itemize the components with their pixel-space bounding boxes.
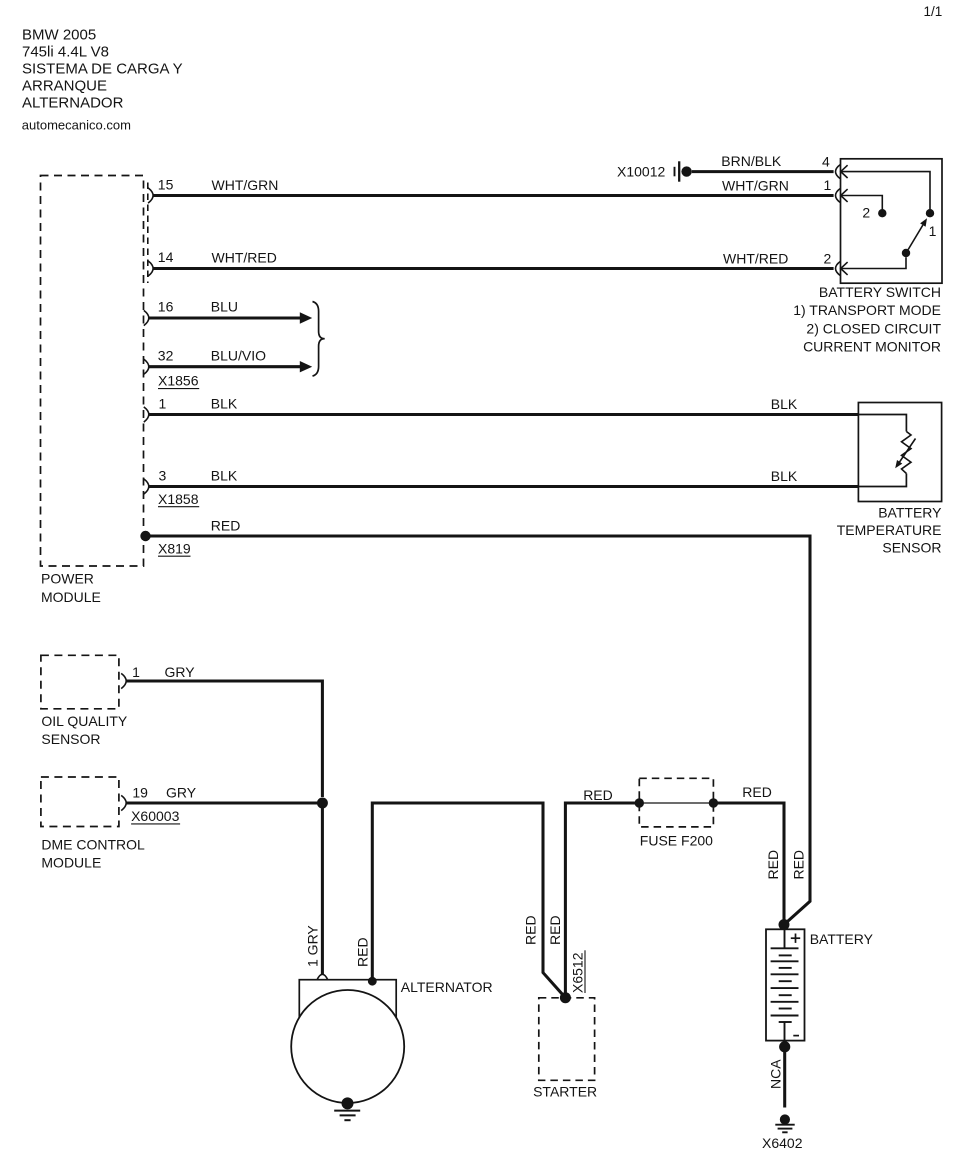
svg-text:FUSE F200: FUSE F200 [640, 833, 713, 849]
DME control module dashed box [41, 777, 119, 827]
DME control module pin 19 [121, 784, 148, 810]
svg-text:1: 1 [132, 664, 140, 680]
svg-text:1: 1 [824, 177, 832, 193]
fuse F200 element [635, 798, 719, 807]
svg-text:ALTERNADOR: ALTERNADOR [22, 95, 124, 112]
node X6512 junction dot [560, 950, 586, 1003]
node X819 junction dot [140, 531, 191, 557]
svg-text:GRY: GRY [165, 664, 196, 680]
svg-text:1 GRY: 1 GRY [305, 925, 321, 967]
wire GRY junction down to alternator [305, 803, 323, 974]
thermistor zigzag [902, 432, 912, 474]
starter M1 dashed box [539, 998, 595, 1081]
power module U1 dashed box [41, 176, 144, 567]
fuse F200 caption [640, 833, 713, 849]
svg-text:X6402: X6402 [762, 1135, 803, 1151]
oil quality sensor caption [41, 713, 128, 747]
svg-text:19: 19 [132, 784, 148, 800]
pin 3 (BLK) [144, 468, 167, 495]
svg-text:OIL QUALITY: OIL QUALITY [41, 713, 128, 729]
battery temperature sensor internal wiring [858, 415, 906, 487]
svg-text:1: 1 [159, 396, 167, 412]
svg-text:X1858: X1858 [158, 491, 199, 507]
svg-text:16: 16 [158, 299, 174, 315]
battery positive node dot [779, 919, 790, 930]
power module connector face dashed line [147, 183, 149, 284]
ground connector X6402 [762, 1114, 803, 1151]
battery negative node dot [779, 1041, 790, 1052]
battery switch internal wire from pin1 [841, 196, 882, 210]
alternator circle [291, 990, 404, 1103]
svg-text:BLK: BLK [211, 396, 238, 412]
svg-text:POWER: POWER [41, 571, 94, 587]
svg-text:SISTEMA DE CARGA Y: SISTEMA DE CARGA Y [22, 61, 183, 78]
label RED on starter feed wires [522, 915, 563, 945]
svg-text:14: 14 [158, 249, 174, 265]
wire RED alternator B+ up and over to starter node [354, 803, 565, 998]
svg-text:RED: RED [354, 937, 370, 967]
svg-text:RED: RED [765, 850, 781, 880]
svg-text:X60003: X60003 [131, 808, 179, 824]
svg-text:1/1: 1/1 [924, 4, 943, 19]
svg-text:WHT/RED: WHT/RED [212, 250, 277, 266]
svg-text:BATTERY SWITCH: BATTERY SWITCH [819, 284, 941, 300]
connector X10012 [617, 161, 692, 181]
svg-text:WHT/RED: WHT/RED [723, 250, 788, 266]
svg-text:X6512: X6512 [570, 952, 586, 993]
svg-text:BRN/BLK: BRN/BLK [721, 153, 782, 169]
svg-text:1: 1 [929, 223, 937, 239]
title block [22, 26, 183, 111]
battery plus sign [791, 934, 800, 943]
battery switch common contact dot [902, 249, 910, 257]
wire RED fuse to battery positive [713, 784, 784, 925]
wire WHT/RED pin14 to battery switch pin2 [153, 250, 834, 269]
battery switch S1 box [841, 159, 943, 283]
pin 1 (BLK) [144, 396, 167, 423]
svg-text:2: 2 [862, 205, 870, 221]
wire RED starter node up and right to fuse [565, 787, 639, 998]
svg-text:15: 15 [158, 177, 174, 193]
svg-text:2: 2 [824, 250, 832, 266]
alternator GRY pin arc [317, 974, 328, 980]
svg-text:WHT/GRN: WHT/GRN [212, 177, 279, 193]
battery minus sign [793, 1035, 799, 1037]
connector label X60003 [131, 808, 180, 824]
battery switch S1 pin 2 connector [824, 250, 848, 275]
svg-text:RED: RED [211, 517, 241, 533]
pin 16 [144, 299, 174, 326]
svg-text:BMW 2005: BMW 2005 [22, 26, 96, 43]
svg-text:SENSOR: SENSOR [41, 731, 100, 747]
pin 15 [148, 177, 173, 204]
svg-text:BLK: BLK [771, 396, 798, 412]
svg-text:4: 4 [822, 154, 830, 170]
svg-text:745li 4.4L V8: 745li 4.4L V8 [22, 44, 109, 61]
svg-text:X1856: X1856 [158, 373, 199, 389]
pin 14 [148, 249, 173, 276]
svg-text:1) TRANSPORT MODE: 1) TRANSPORT MODE [793, 302, 941, 318]
fuse F200 dashed box [639, 778, 713, 827]
svg-text:STARTER: STARTER [533, 1084, 597, 1100]
svg-text:DME CONTROL: DME CONTROL [41, 837, 145, 853]
battery cells [771, 929, 799, 1040]
wire WHT/GRN pin15 to battery switch pin1 [153, 177, 834, 196]
svg-text:BLU/VIO: BLU/VIO [211, 348, 266, 364]
svg-text:automecanico.com: automecanico.com [22, 118, 131, 133]
svg-text:MODULE: MODULE [41, 855, 101, 871]
alternator B+ terminal dot [368, 977, 377, 986]
svg-text:2) CLOSED CIRCUIT: 2) CLOSED CIRCUIT [806, 320, 941, 336]
wire NCA battery negative to ground [767, 1047, 784, 1108]
svg-text:RED: RED [547, 915, 563, 945]
DME control module caption [41, 837, 145, 871]
svg-text:RED: RED [742, 784, 772, 800]
svg-text:MODULE: MODULE [41, 589, 101, 605]
battery temperature sensor RT1 box [858, 403, 941, 502]
svg-text:ALTERNATOR: ALTERNATOR [401, 979, 493, 995]
power module caption [41, 571, 101, 606]
battery temperature sensor caption [837, 504, 942, 555]
svg-text:CURRENT MONITOR: CURRENT MONITOR [803, 339, 941, 355]
node GRY junction dot [317, 798, 328, 809]
labels RED on battery feed wires [765, 850, 807, 880]
battery switch S1 pin 1 connector [824, 177, 848, 203]
battery switch contact dot 1 [926, 209, 937, 239]
svg-text:BATTERY: BATTERY [810, 931, 874, 947]
watermark automecanico.com [22, 118, 131, 133]
svg-text:TEMPERATURE: TEMPERATURE [837, 522, 942, 538]
battery switch moving arm arrow [908, 218, 927, 249]
alternator G1 box [299, 980, 396, 1030]
svg-text:RED: RED [791, 850, 807, 880]
battery switch contact dot 2 [862, 205, 886, 221]
connector label X1858 [158, 491, 199, 507]
svg-text:BLU: BLU [211, 299, 238, 315]
battery caption [810, 931, 874, 947]
wire BLK pin1 to battery temperature sensor [148, 396, 858, 415]
svg-text:BLK: BLK [771, 468, 798, 484]
svg-text:RED: RED [583, 787, 613, 803]
wire BLU/VIO with arrow [148, 348, 312, 373]
svg-text:RED: RED [522, 915, 538, 945]
battery switch S1 pin 4 connector [822, 154, 848, 179]
svg-text:X10012: X10012 [617, 164, 665, 180]
svg-text:WHT/GRN: WHT/GRN [722, 177, 789, 193]
alternator caption [401, 979, 493, 995]
wire BLK pin3 to battery temperature sensor [148, 468, 858, 487]
svg-text:NCA: NCA [767, 1059, 783, 1089]
svg-text:ARRANQUE: ARRANQUE [22, 78, 107, 95]
svg-text:3: 3 [159, 468, 167, 484]
wire GRY from DME pin 19 [126, 784, 317, 803]
svg-text:GRY: GRY [166, 784, 197, 800]
wire RED from X819 to battery positive [146, 517, 811, 924]
battery switch caption [793, 284, 941, 355]
page number 1/1 [924, 4, 943, 19]
alternator ground [334, 1097, 360, 1120]
svg-text:SENSOR: SENSOR [882, 539, 941, 555]
battery switch internal wire to pin2 [841, 257, 906, 268]
brace for off-page arrows [313, 302, 325, 377]
pin 32 [144, 348, 174, 375]
svg-text:X819: X819 [158, 540, 191, 556]
svg-text:BLK: BLK [211, 468, 238, 484]
oil quality sensor pin 1 [121, 664, 140, 689]
starter caption [533, 1084, 597, 1100]
wire BLU with arrow [148, 299, 312, 324]
oil quality sensor dashed box [41, 655, 119, 709]
wire GRY from oil quality sensor [126, 664, 323, 797]
connector label X1856 [158, 373, 199, 389]
thermistor arrow [895, 439, 915, 469]
wire BRN/BLK X10012 to battery switch pin4 [692, 153, 834, 171]
battery switch internal wire from pin4 [841, 172, 930, 210]
svg-text:BATTERY: BATTERY [878, 504, 942, 520]
svg-text:32: 32 [158, 348, 174, 364]
battery B1 box [766, 929, 805, 1040]
